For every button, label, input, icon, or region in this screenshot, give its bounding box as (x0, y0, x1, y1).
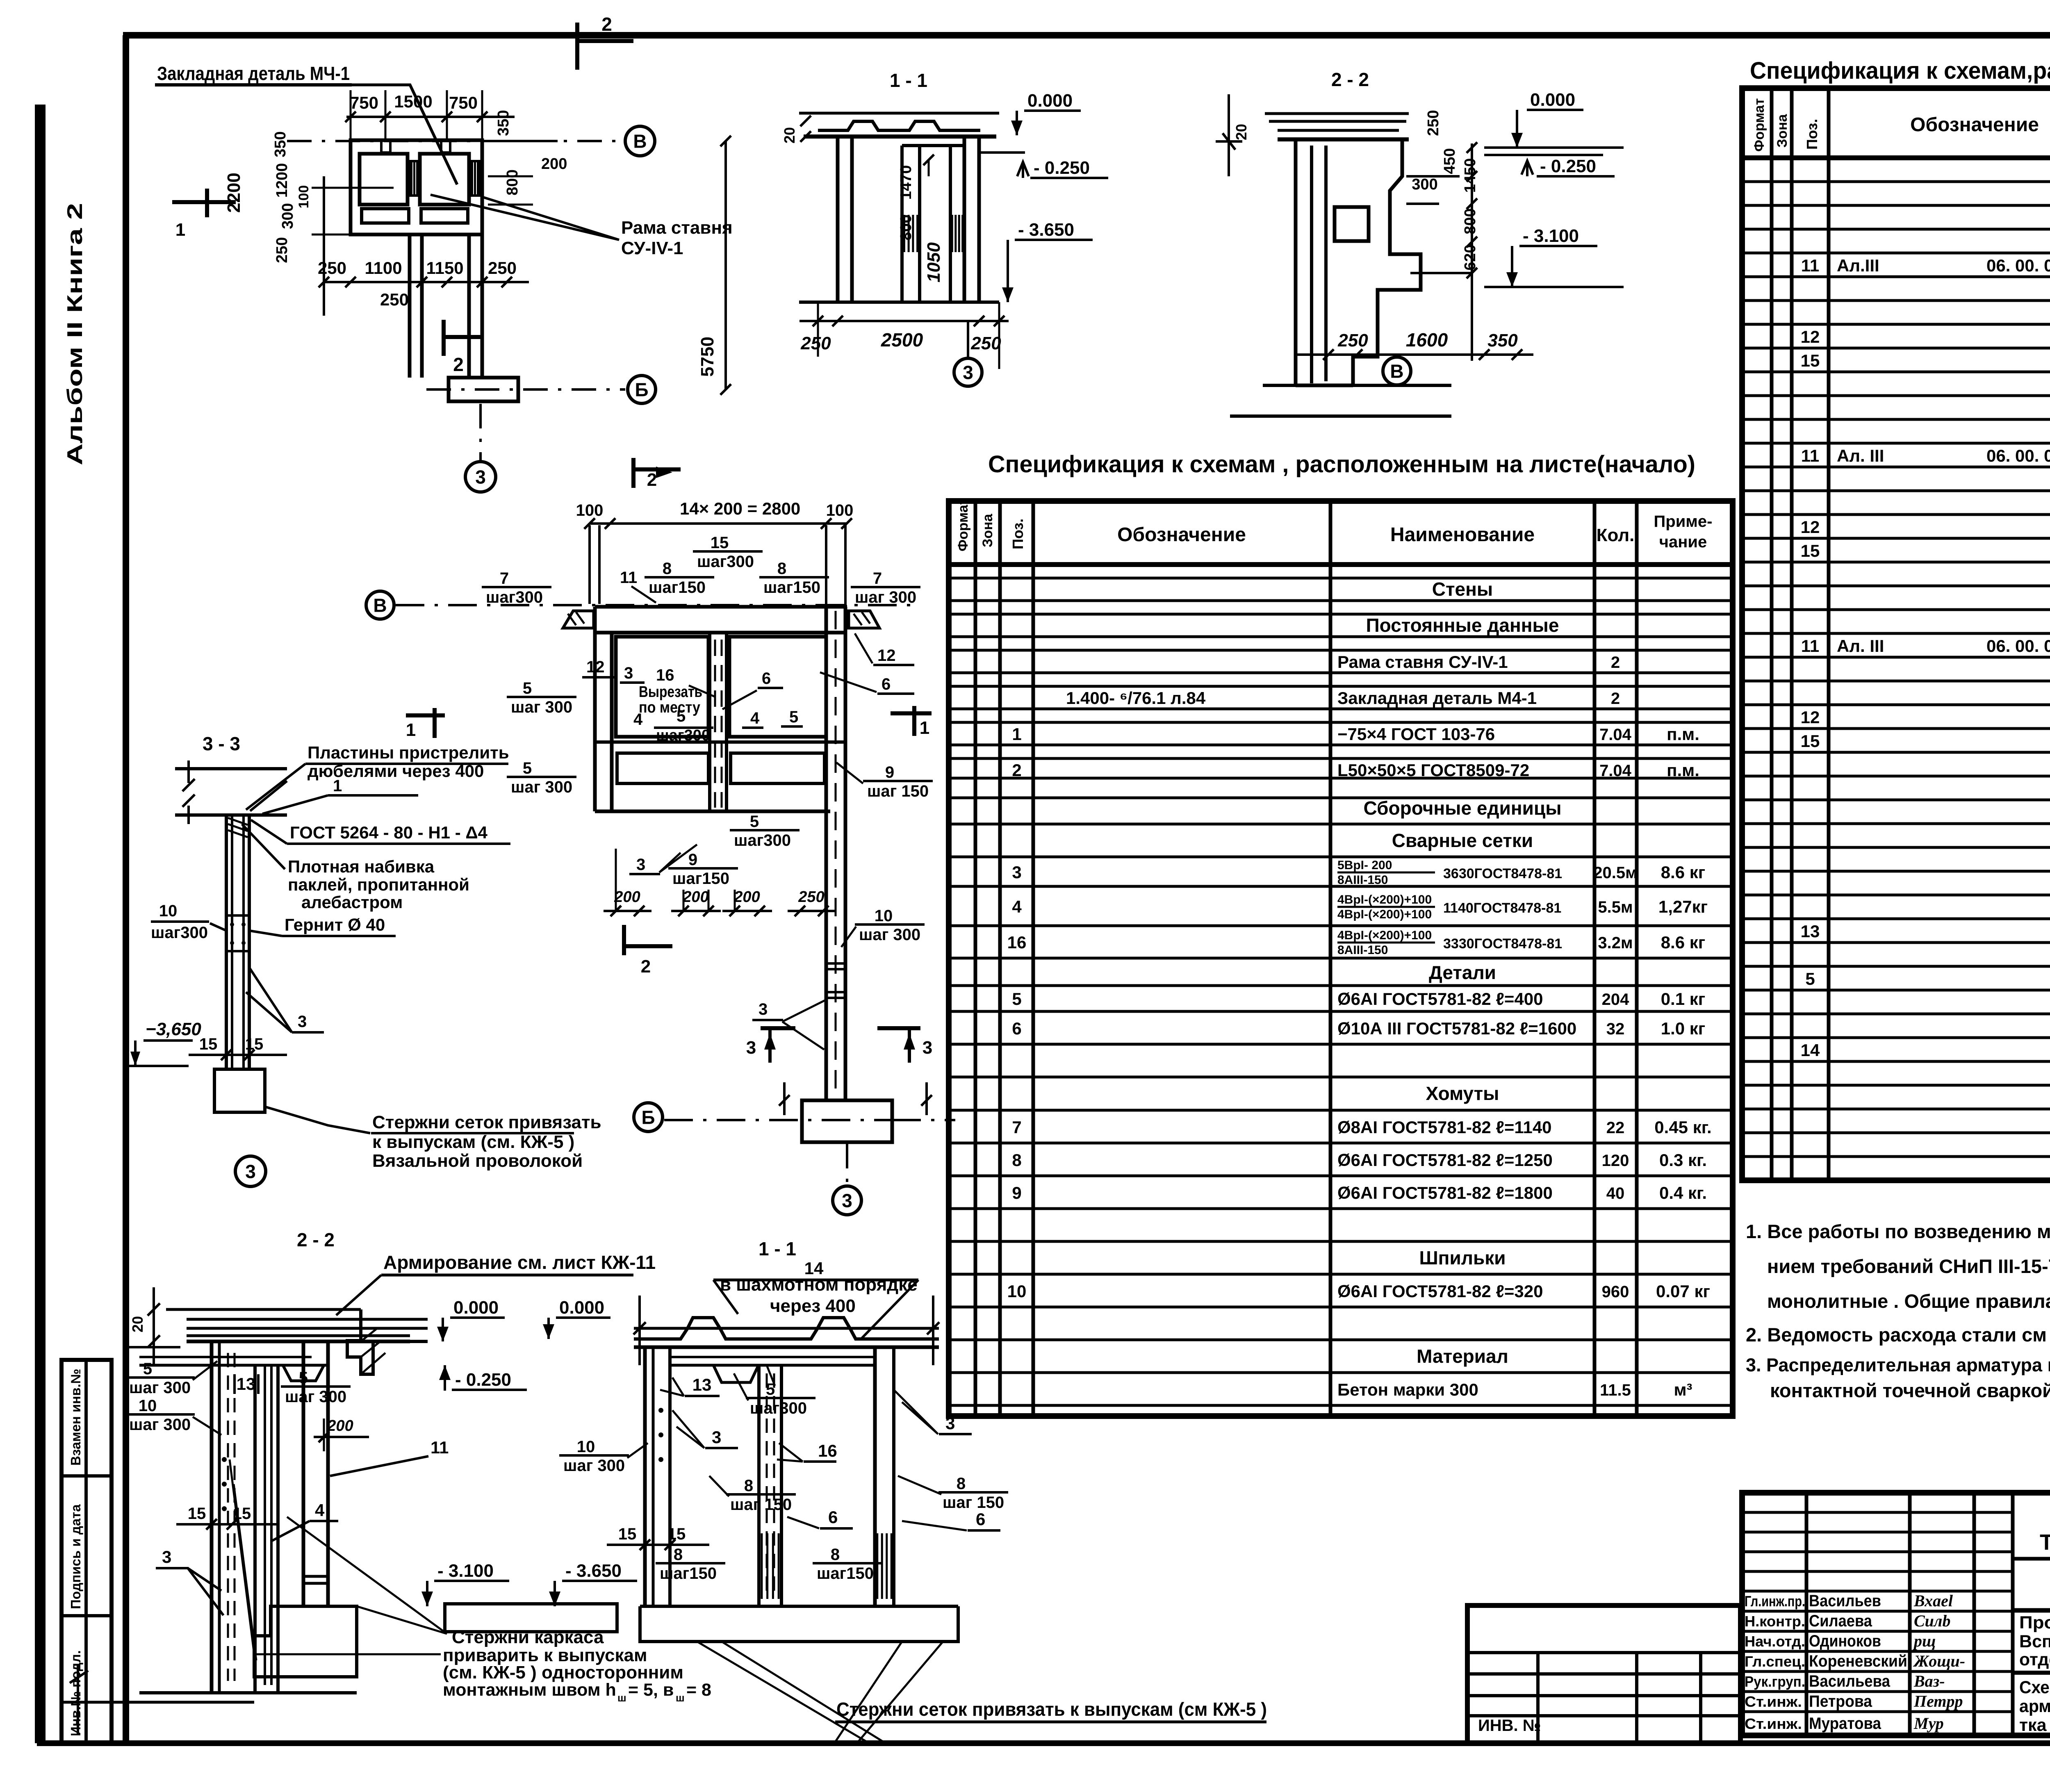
svg-text:Шпильки: Шпильки (1419, 1247, 1506, 1268)
svg-text:Спецификация к схемам , рас: Спецификация к схемам , расположенным на… (988, 451, 1695, 478)
svg-text:шаг150: шаг150 (660, 1564, 717, 1583)
svg-text:7: 7 (500, 569, 509, 587)
svg-text:7: 7 (873, 569, 882, 587)
svg-text:250: 250 (800, 333, 831, 353)
2-2 bottom dim 250 1600 350 (1328, 328, 1533, 328)
svg-text:Стены: Стены (1432, 578, 1493, 600)
svg-text:100: 100 (826, 501, 854, 519)
svg-text:монолитные . Общие правила п: монолитные . Общие правила производства … (1767, 1290, 2050, 1312)
svg-text:1.0 кг: 1.0 кг (1661, 1019, 1706, 1038)
svg-text:Силb: Силb (1914, 1612, 1950, 1630)
svg-text:5: 5 (299, 1369, 308, 1387)
svg-text:6: 6 (881, 675, 891, 693)
svg-text:шаг 300: шаг 300 (563, 1457, 625, 1475)
svg-text:1.400- ⁶/76.1 л.84: 1.400- ⁶/76.1 л.84 (1066, 688, 1206, 708)
svg-text:1150: 1150 (426, 258, 463, 278)
svg-text:620: 620 (1462, 244, 1479, 270)
svg-text:Ø6АI ГОСТ5781-82 ℓ=1250: Ø6АI ГОСТ5781-82 ℓ=1250 (1337, 1150, 1553, 1170)
svg-text:14: 14 (1801, 1041, 1820, 1060)
page frame left accent bar (35, 105, 46, 1743)
svg-text:960: 960 (1602, 1283, 1629, 1301)
svg-text:5: 5 (143, 1360, 152, 1378)
svg-text:750: 750 (449, 93, 478, 112)
svg-text:250: 250 (318, 258, 346, 278)
svg-text:−3,650: −3,650 (146, 1019, 201, 1039)
svg-text:06. 00. 00 - 02: 06. 00. 00 - 02 (1986, 636, 2050, 656)
grid circle В (central) (366, 591, 394, 619)
svg-text:5: 5 (1805, 969, 1815, 988)
svg-text:Муратова: Муратова (1809, 1715, 1881, 1733)
2-2 window opening (1335, 207, 1369, 241)
axis through footing to Б (664, 1119, 920, 1121)
svg-text:Ø6АI ГОСТ5781-82 ℓ=1800: Ø6АI ГОСТ5781-82 ℓ=1800 (1337, 1183, 1553, 1202)
svg-text:20: 20 (129, 1316, 146, 1332)
svg-text:6: 6 (828, 1507, 838, 1527)
svg-text:шаг300: шаг300 (656, 727, 710, 744)
svg-text:1: 1 (333, 777, 342, 795)
3-3 wall (225, 815, 228, 1069)
svg-text:800: 800 (897, 214, 915, 240)
svg-text:Пластины пристрелить: Пластины пристрелить (307, 743, 509, 762)
svg-text:контактной точечной сваркой: контактной точечной сваркой с помощью св… (1770, 1380, 2050, 1401)
svg-text:Наименование: Наименование (1390, 524, 1535, 546)
svg-text:3. Распределительная арматура: 3. Распределительная арматура приваривае… (1746, 1355, 2050, 1375)
2-2 corbel steps right (347, 1309, 428, 1374)
svg-text:06. 00. 00 - 00: 06. 00. 00 - 00 (1986, 256, 2050, 275)
svg-text:5: 5 (789, 708, 798, 726)
svg-text:4ВрI-(×200)+100: 4ВрI-(×200)+100 (1337, 893, 1432, 906)
svg-text:Обозначение: Обозначение (1910, 114, 2039, 136)
svg-text:Приме-: Приме- (1654, 512, 1713, 531)
svg-text:шаг 150: шаг 150 (943, 1494, 1004, 1512)
svg-text:3: 3 (1012, 863, 1021, 882)
svg-text:Ø6АI ГОСТ5781-82 ℓ=400: Ø6АI ГОСТ5781-82 ℓ=400 (1337, 989, 1543, 1009)
svg-text:20: 20 (781, 127, 798, 143)
svg-text:250: 250 (488, 258, 517, 278)
svg-text:Гл.инж.пр.: Гл.инж.пр. (1745, 1593, 1805, 1610)
2-2 footing (254, 1606, 357, 1677)
svg-text:- 0.250: - 0.250 (1034, 158, 1090, 178)
plan hatched strip between squares (410, 161, 419, 196)
svg-text:0.000: 0.000 (453, 1298, 499, 1318)
svg-text:Силаева: Силаева (1809, 1612, 1872, 1630)
svg-text:Ст.инж.: Ст.инж. (1745, 1693, 1802, 1710)
svg-text:1: 1 (920, 718, 929, 738)
1-1 roof profile (799, 112, 999, 115)
svg-text:1. Все работы по возведению мо: 1. Все работы по возведению монолитного … (1746, 1220, 2050, 1242)
svg-text:11: 11 (1801, 446, 1819, 465)
svg-text:4: 4 (315, 1501, 325, 1520)
3-3 gasket hatch top (228, 818, 248, 837)
svg-text:армирования монолитного учас-: армирования монолитного учас- (2019, 1696, 2050, 1716)
svg-text:200: 200 (682, 888, 708, 906)
svg-text:0.1 кг: 0.1 кг (1661, 989, 1706, 1009)
plan anchor stubs (381, 140, 390, 153)
svg-text:шаг150: шаг150 (817, 1564, 874, 1583)
svg-text:по месту: по месту (639, 699, 700, 716)
grid circle В (section 2-2) (1396, 355, 1398, 357)
title block right area lines (2013, 1557, 2050, 1561)
svg-text:2200: 2200 (224, 173, 244, 213)
1-1 inner strip left (900, 146, 904, 302)
svg-text:Рама ставня СУ-IV-1: Рама ставня СУ-IV-1 (1337, 652, 1508, 672)
svg-text:ГОСТ 5264 - 80 - Н1 - Δ4: ГОСТ 5264 - 80 - Н1 - Δ4 (290, 823, 488, 842)
central left box wall (593, 607, 597, 811)
svg-text:Петрр: Петрр (1913, 1692, 1963, 1710)
1-1 inner strip right (949, 146, 952, 302)
svg-text:800: 800 (504, 169, 521, 195)
svg-text:20: 20 (1233, 124, 1250, 140)
svg-text:паклей, пропитанной: паклей, пропитанной (288, 875, 469, 894)
svg-text:1470: 1470 (897, 165, 915, 200)
svg-text:Сварные сетки: Сварные сетки (1392, 830, 1533, 851)
svg-text:1050: 1050 (924, 242, 944, 282)
svg-text:350: 350 (272, 131, 289, 157)
2-2 groove (283, 1365, 324, 1381)
svg-text:2: 2 (453, 354, 464, 375)
svg-text:5: 5 (523, 759, 532, 777)
svg-text:Поз.: Поз. (1009, 519, 1026, 549)
pit floor slab between sections (445, 1604, 617, 1632)
central mid strip (dashed verticals) (708, 633, 711, 811)
svg-text:1,27кг: 1,27кг (1658, 897, 1708, 916)
svg-text:- 3.650: - 3.650 (1018, 220, 1074, 240)
central column (825, 607, 828, 1100)
svg-text:шаг 300: шаг 300 (285, 1388, 346, 1406)
svg-text:11: 11 (620, 569, 637, 587)
svg-text:450: 450 (1441, 148, 1458, 174)
svg-text:Формат: Формат (1752, 98, 1767, 152)
1-1 inner dim ticks (928, 160, 930, 176)
svg-text:шаг 150: шаг 150 (867, 782, 929, 800)
svg-text:3: 3 (758, 1000, 768, 1018)
section markers 3 (central bottom) (761, 1026, 795, 1030)
svg-text:Хомуты: Хомуты (1426, 1083, 1499, 1104)
svg-text:3.2м: 3.2м (1598, 934, 1633, 952)
grid circle В (plan) (625, 126, 655, 156)
svg-text:4: 4 (1012, 897, 1022, 916)
svg-text:100: 100 (576, 501, 604, 519)
svg-text:1: 1 (406, 720, 416, 740)
svg-text:Вырезать: Вырезать (639, 683, 702, 701)
1-1 leader V lines to bottom text (697, 1642, 943, 1743)
svg-text:8.6 кг: 8.6 кг (1661, 863, 1706, 882)
svg-text:Вхael: Вхael (1913, 1592, 1953, 1610)
svg-text:Ст.инж.: Ст.инж. (1745, 1715, 1802, 1732)
svg-text:250: 250 (1425, 110, 1442, 136)
svg-text:10: 10 (139, 1397, 157, 1415)
svg-text:3: 3 (475, 467, 486, 488)
svg-text:Т.П. А- II , III , IV - 450 −: Т.П. А- II , III , IV - 450 − (2040, 1530, 2050, 1555)
svg-text:шаг 300: шаг 300 (511, 778, 572, 796)
1-1 left wall (643, 1347, 647, 1606)
plan hatched strip right (471, 161, 479, 196)
svg-text:8: 8 (744, 1477, 753, 1495)
svg-text:Сборочные единицы: Сборочные единицы (1364, 797, 1562, 819)
svg-text:0.000: 0.000 (1027, 91, 1073, 111)
svg-text:4ВрI-(×200)+100: 4ВрI-(×200)+100 (1337, 908, 1432, 921)
svg-text:Закладная деталь М4-1: Закладная деталь М4-1 (1337, 688, 1537, 708)
central box bottom (595, 810, 830, 813)
svg-text:Постоянные данные: Постоянные данные (1366, 615, 1559, 636)
section marker 2 (central top) (631, 458, 635, 488)
svg-text:3: 3 (963, 362, 973, 383)
svg-text:Ваз-: Ваз- (1913, 1672, 1945, 1690)
svg-text:15: 15 (199, 1035, 218, 1053)
svg-text:750: 750 (350, 93, 378, 112)
svg-text:10: 10 (159, 902, 178, 920)
plan 5750 vertical dim (724, 141, 727, 389)
svg-text:Кореневский: Кореневский (1809, 1652, 1907, 1670)
svg-text:шаг300: шаг300 (486, 588, 543, 606)
svg-text:120: 120 (1602, 1152, 1629, 1170)
2-2 bottom slab line (1263, 384, 1451, 387)
svg-text:шаг150: шаг150 (672, 870, 729, 888)
svg-text:40: 40 (1606, 1184, 1625, 1202)
svg-text:3: 3 (162, 1547, 171, 1567)
left anchor plate (563, 611, 594, 628)
svg-text:тка УМЗ: тка УМЗ (2019, 1715, 2050, 1735)
svg-text:Закладная деталь МЧ-1: Закладная деталь МЧ-1 (157, 63, 350, 84)
svg-text:Альбом II Книга 2: Альбом II Книга 2 (63, 203, 87, 465)
svg-text:= 5, в: = 5, в (628, 1680, 674, 1700)
svg-text:Б: Б (641, 1107, 655, 1128)
svg-text:12: 12 (1801, 517, 1820, 537)
section marker 2 top (575, 23, 579, 70)
svg-text:11: 11 (1801, 256, 1819, 275)
grid circle 3 (3-3) (235, 1156, 266, 1186)
svg-text:10: 10 (875, 907, 893, 925)
svg-text:06. 00. 00 - 01: 06. 00. 00 - 01 (1986, 446, 2050, 465)
2-2 bottom floor lines (139, 1691, 357, 1694)
central lower slot 2 (731, 753, 825, 783)
right specification table grid (1742, 88, 2050, 1180)
margin stamp table (61, 1360, 112, 1743)
svg-text:Н.контр.: Н.контр. (1745, 1613, 1805, 1630)
svg-text:4ВрI-(×200)+100: 4ВрI-(×200)+100 (1337, 929, 1432, 942)
svg-text:- 3.650: - 3.650 (565, 1561, 622, 1581)
svg-text:Зона: Зона (1774, 114, 1790, 148)
svg-text:3: 3 (746, 1038, 756, 1058)
svg-text:Одиноков: Одиноков (1809, 1632, 1881, 1650)
1-1 inner top lines (670, 1364, 875, 1367)
plan top dimension line 750 1500 750 (346, 116, 515, 118)
svg-text:Взамен инв.№: Взамен инв.№ (68, 1369, 83, 1466)
svg-text:Петрова: Петрова (1809, 1692, 1872, 1710)
svg-text:Армирование см. лист КЖ-11: Армирование см. лист КЖ-11 (383, 1252, 656, 1273)
svg-text:Поз.: Поз. (1804, 119, 1820, 150)
3-3 mid block (226, 915, 249, 951)
svg-text:5: 5 (1012, 989, 1021, 1009)
svg-text:0.45 кг.: 0.45 кг. (1654, 1118, 1711, 1137)
svg-text:СУ-IV-1: СУ-IV-1 (621, 238, 683, 258)
svg-text:12: 12 (1801, 708, 1820, 727)
plan wall band outline (351, 140, 482, 235)
middle specification table grid (949, 501, 1733, 1416)
svg-text:рщ: рщ (1913, 1632, 1936, 1650)
2-2 right wall (302, 1341, 305, 1606)
1-1 roof profiled slab (634, 1327, 939, 1330)
svg-text:250: 250 (380, 290, 409, 309)
section marker 1 left (central) (406, 713, 445, 717)
svg-text:к выпускам (см. КЖ-5 ): к выпускам (см. КЖ-5 ) (372, 1132, 574, 1152)
svg-text:22: 22 (1606, 1119, 1625, 1137)
grid circle Б (plan) (628, 376, 656, 403)
footing corner ticks (783, 1082, 786, 1115)
svg-text:2: 2 (647, 470, 657, 490)
svg-text:3: 3 (842, 1190, 852, 1211)
grid circle Б (central) (634, 1103, 663, 1132)
svg-text:2: 2 (601, 14, 612, 35)
svg-text:12: 12 (877, 647, 896, 665)
svg-text:Ал. III: Ал. III (1837, 636, 1884, 656)
svg-text:- 3.100: - 3.100 (1523, 226, 1579, 246)
svg-text:8: 8 (674, 1546, 683, 1564)
section marker 1 right (central) (891, 711, 932, 715)
svg-text:7.04: 7.04 (1599, 726, 1632, 744)
svg-text:0.000: 0.000 (559, 1298, 604, 1318)
svg-text:Схемы расположения элементов: Схемы расположения элементов (2019, 1678, 2050, 1697)
svg-text:6: 6 (762, 669, 771, 688)
right anchor plate (849, 611, 879, 628)
svg-text:Ø10А III ГОСТ5781-82 ℓ=1600: Ø10А III ГОСТ5781-82 ℓ=1600 (1337, 1019, 1576, 1038)
1-1 right wall (963, 137, 966, 302)
svg-text:8АIII-150: 8АIII-150 (1337, 943, 1388, 957)
svg-text:Б: Б (635, 379, 648, 401)
1-1 небольшой groove top (713, 1365, 758, 1382)
svg-text:15: 15 (1801, 541, 1820, 560)
svg-text:- 0.250: - 0.250 (1540, 156, 1596, 176)
svg-text:10: 10 (1007, 1282, 1027, 1301)
auxiliary table left of title block (1467, 1605, 1740, 1743)
svg-text:шаг300: шаг300 (697, 553, 754, 571)
svg-text:Подпись и дата: Подпись и дата (68, 1504, 83, 1609)
svg-text:7: 7 (1012, 1118, 1021, 1137)
svg-text:ш: ш (617, 1692, 626, 1704)
svg-text:2 - 2: 2 - 2 (297, 1229, 335, 1250)
svg-text:Бетон марки 300: Бетон марки 300 (1337, 1380, 1478, 1399)
svg-text:3: 3 (922, 1038, 932, 1058)
svg-text:15: 15 (711, 534, 729, 552)
svg-text:8: 8 (831, 1546, 840, 1564)
plan bottom dimension 250 1100 1150 250 (324, 281, 529, 283)
svg-text:11: 11 (1801, 636, 1819, 656)
title block frame (1742, 1493, 2050, 1735)
svg-text:Мур: Мур (1913, 1714, 1944, 1733)
svg-text:2500: 2500 (881, 329, 923, 351)
svg-text:15: 15 (618, 1525, 637, 1543)
svg-text:3330ГОСТ8478-81: 3330ГОСТ8478-81 (1443, 936, 1562, 952)
svg-text:800: 800 (1462, 208, 1479, 234)
central lower slot 1 (617, 753, 708, 783)
svg-text:Зона: Зона (980, 513, 995, 547)
svg-text:п.м.: п.м. (1667, 724, 1699, 744)
svg-text:8: 8 (957, 1475, 966, 1493)
plan lower slots (362, 209, 409, 223)
svg-text:ш: ш (676, 1692, 685, 1704)
column tie marks (826, 962, 845, 965)
svg-text:0.07 кг: 0.07 кг (1656, 1282, 1710, 1301)
section marker 2 (central bottom) (622, 925, 626, 955)
svg-text:9: 9 (1012, 1183, 1021, 1202)
svg-text:250: 250 (970, 333, 1001, 353)
svg-text:3: 3 (624, 664, 633, 682)
svg-text:5750: 5750 (697, 337, 717, 377)
svg-text:1: 1 (175, 220, 185, 240)
svg-text:5.5м: 5.5м (1598, 898, 1633, 916)
svg-text:15: 15 (667, 1525, 686, 1543)
svg-text:1500: 1500 (394, 92, 432, 111)
svg-text:5: 5 (750, 813, 759, 831)
svg-text:шаг300: шаг300 (151, 924, 208, 942)
grid circle 3 (central) (833, 1186, 861, 1215)
central top beam band (595, 605, 847, 609)
central drawing top dim line 14x200=2800 (590, 522, 847, 525)
svg-text:Стержни сеток привязать: Стержни сеток привязать (372, 1112, 601, 1132)
plan vertical wall going down (408, 235, 412, 378)
1-1 left wall (836, 137, 840, 302)
plan axis line to circle B (287, 140, 623, 142)
svg-text:1140ГОСТ8478-81: 1140ГОСТ8478-81 (1443, 900, 1561, 916)
2-2 inner wall lines (1310, 146, 1313, 383)
svg-text:шаг 150: шаг 150 (730, 1496, 792, 1514)
svg-text:350: 350 (1487, 330, 1518, 351)
svg-text:13: 13 (1801, 922, 1820, 941)
section marker 1 left (172, 200, 236, 204)
svg-text:4: 4 (750, 709, 760, 727)
plan left dimension chain (323, 176, 325, 316)
svg-text:16: 16 (1007, 933, 1027, 952)
1-1 bottom line (799, 301, 999, 304)
svg-text:В: В (633, 131, 647, 152)
svg-text:Стержни сеток привязать к выпу: Стержни сеток привязать к выпускам (см К… (836, 1699, 1267, 1720)
svg-text:13: 13 (237, 1374, 256, 1394)
svg-text:L50×50×5 ГОСТ8509-72: L50×50×5 ГОСТ8509-72 (1337, 761, 1529, 780)
central panel 1 (616, 637, 708, 737)
svg-text:Формат: Формат (955, 498, 971, 551)
svg-text:200: 200 (614, 888, 640, 906)
svg-text:1200: 1200 (273, 163, 291, 198)
plan anchor square right (420, 154, 469, 205)
svg-text:2: 2 (1611, 653, 1620, 672)
svg-text:Производственное здание: Производственное здание (2019, 1613, 2050, 1633)
svg-text:300: 300 (1412, 176, 1437, 193)
svg-text:п.м.: п.м. (1667, 761, 1699, 780)
svg-text:250: 250 (1337, 330, 1368, 351)
central footing (802, 1100, 892, 1142)
svg-text:через 400: через 400 (770, 1296, 856, 1316)
svg-text:шаг150: шаг150 (763, 578, 820, 597)
svg-text:8.6 кг: 8.6 кг (1661, 933, 1706, 952)
svg-text:Рама ставня: Рама ставня (621, 218, 733, 238)
svg-text:(см. КЖ-5 ) односторонним: (см. КЖ-5 ) односторонним (443, 1662, 683, 1683)
svg-text:Детали: Детали (1429, 962, 1496, 983)
section marker 2 below plan (442, 320, 446, 356)
svg-text:1: 1 (1012, 724, 1021, 744)
svg-text:8: 8 (663, 560, 672, 578)
1-1 inner strip right hatch (876, 1533, 878, 1599)
svg-text:200: 200 (733, 888, 760, 906)
svg-text:16: 16 (656, 666, 674, 684)
svg-text:шаг300: шаг300 (750, 1399, 807, 1417)
svg-text:5: 5 (523, 679, 532, 697)
central mid horizontal line (595, 740, 845, 744)
plan axis down to circle 3 (479, 404, 482, 461)
svg-text:4: 4 (633, 710, 643, 729)
axis down to circle 3 (central) (846, 1144, 848, 1186)
svg-text:2: 2 (1611, 690, 1620, 708)
svg-text:11.5: 11.5 (1600, 1381, 1631, 1399)
